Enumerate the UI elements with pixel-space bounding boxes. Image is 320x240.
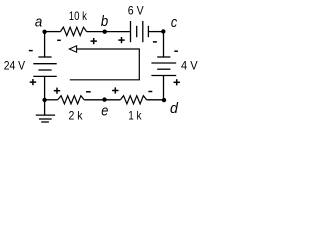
svg-text:24 V: 24 V xyxy=(4,59,26,72)
svg-text:a: a xyxy=(35,14,42,31)
svg-text:c: c xyxy=(171,14,178,31)
svg-text:6 V: 6 V xyxy=(128,4,144,17)
svg-text:e: e xyxy=(101,103,108,120)
svg-text:d: d xyxy=(170,100,179,117)
svg-text:1 k: 1 k xyxy=(128,110,141,123)
svg-text:b: b xyxy=(101,13,108,30)
svg-text:2 k: 2 k xyxy=(69,109,83,122)
svg-text:10 k: 10 k xyxy=(69,10,87,23)
svg-text:4 V: 4 V xyxy=(181,60,198,73)
